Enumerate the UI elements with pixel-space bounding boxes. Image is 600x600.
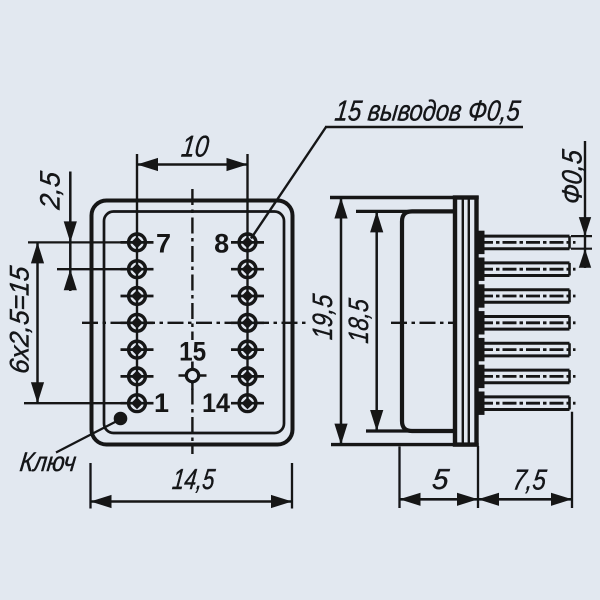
svg-text:14,5: 14,5	[171, 464, 218, 496]
svg-text:10: 10	[180, 131, 211, 164]
svg-text:7: 7	[156, 229, 171, 259]
svg-text:14: 14	[202, 388, 230, 418]
svg-text:8: 8	[214, 229, 229, 259]
svg-text:Ф0,5: Ф0,5	[557, 148, 588, 206]
svg-text:Ключ: Ключ	[18, 446, 78, 477]
svg-text:15: 15	[179, 336, 206, 366]
svg-text:6x2,5=15: 6x2,5=15	[4, 264, 35, 376]
svg-text:7,5: 7,5	[511, 465, 549, 497]
svg-text:18,5: 18,5	[343, 297, 374, 345]
svg-text:15 выводов Ф0,5: 15 выводов Ф0,5	[333, 95, 523, 127]
svg-text:19,5: 19,5	[307, 292, 338, 341]
svg-text:1: 1	[154, 388, 169, 418]
svg-text:2,5: 2,5	[35, 170, 66, 212]
